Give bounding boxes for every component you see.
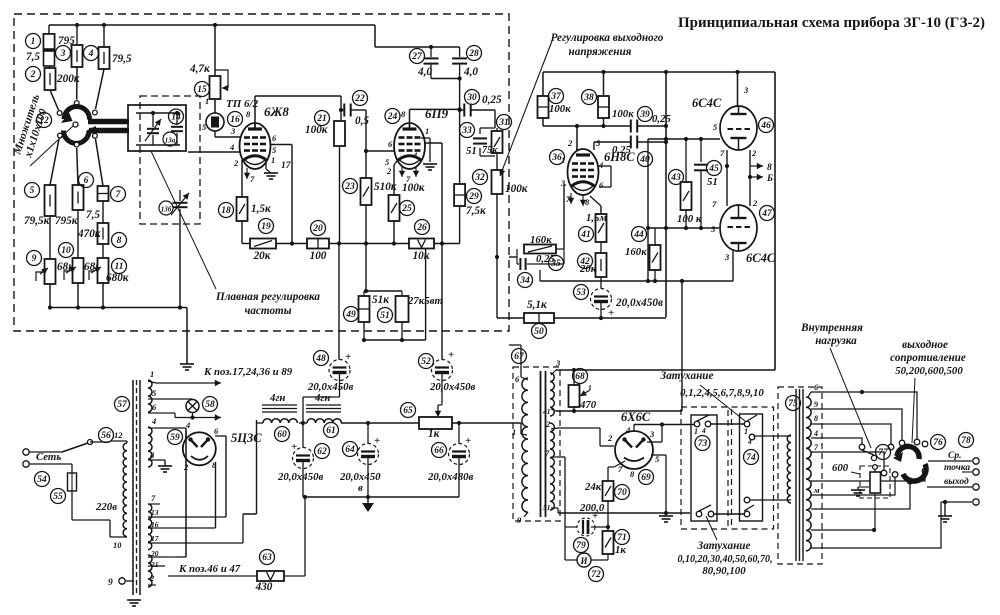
resistor R63 430 xyxy=(257,571,284,581)
switch 73 contacts xyxy=(694,421,700,427)
transformer T1 heater winding1 xyxy=(148,380,152,412)
svg-text:7,5к: 7,5к xyxy=(466,205,486,217)
wire xyxy=(496,156,498,170)
wire xyxy=(600,277,602,291)
svg-text:100: 100 xyxy=(310,250,327,262)
circled 11 xyxy=(112,259,127,274)
svg-text:100к: 100к xyxy=(305,124,328,136)
svg-text:0,25: 0,25 xyxy=(652,113,671,125)
wire xyxy=(241,221,243,244)
tube V7 6Х6С xyxy=(615,431,653,469)
circled 39 xyxy=(638,107,653,122)
wire anode xyxy=(409,109,411,129)
svg-text:80,90,100: 80,90,100 xyxy=(702,565,746,577)
wire rail xyxy=(434,243,460,245)
resistor R5 xyxy=(45,185,56,216)
pointer2 xyxy=(706,516,717,540)
circled 59 xyxy=(168,430,183,445)
wire xyxy=(341,422,419,424)
transformer T1 winding3 xyxy=(148,504,152,550)
svg-text:65: 65 xyxy=(403,406,413,416)
wire xyxy=(452,422,521,424)
svg-text:100 к: 100 к xyxy=(677,213,702,225)
circled 9 xyxy=(27,251,42,266)
capacitor C64 ecap xyxy=(367,423,369,444)
circled 58 xyxy=(203,397,218,412)
svg-text:8: 8 xyxy=(246,109,251,119)
svg-text:16: 16 xyxy=(230,115,240,125)
multiplier dashed box xyxy=(14,14,509,331)
filament links xyxy=(726,150,728,206)
svg-text:7: 7 xyxy=(814,443,819,452)
svg-text:Внутренняя: Внутренняя xyxy=(800,322,863,334)
arrow 8 xyxy=(750,165,763,167)
ground 6Ж8 xyxy=(265,160,267,169)
svg-text:4гн: 4гн xyxy=(314,392,330,404)
wire pin6 xyxy=(270,144,292,146)
resistor R37 100к xyxy=(542,72,544,96)
svg-text:70: 70 xyxy=(617,488,627,498)
svg-text:2: 2 xyxy=(233,158,239,168)
tap wire 6 xyxy=(811,474,925,481)
svg-text:3: 3 xyxy=(230,126,236,136)
wire cap52 drop xyxy=(441,244,443,361)
svg-text:17: 17 xyxy=(281,161,292,171)
wire x648 xyxy=(647,139,649,281)
svg-text:48: 48 xyxy=(315,354,326,364)
resistor R26 10к var xyxy=(409,239,434,249)
svg-text:470: 470 xyxy=(579,399,597,411)
svg-text:38: 38 xyxy=(583,93,594,103)
circled 2 xyxy=(26,67,41,82)
switch S12 rotor upper xyxy=(64,106,90,119)
wire rail xyxy=(242,243,250,245)
circled 1 xyxy=(26,34,41,49)
tap wire bottom1 xyxy=(811,529,874,531)
svg-text:19: 19 xyxy=(261,222,271,232)
wire tap2 to grid xyxy=(558,427,600,429)
circled 8 xyxy=(112,233,127,248)
circled 72 xyxy=(589,567,604,582)
svg-text:7: 7 xyxy=(545,448,550,458)
circled 27 xyxy=(410,49,425,64)
attenuator 73 inner box xyxy=(691,415,717,521)
svg-text:34: 34 xyxy=(519,276,530,286)
wire rail y47 xyxy=(375,46,460,48)
circled 67 xyxy=(512,349,527,364)
potentiometer R32 100к xyxy=(492,170,503,194)
svg-text:58: 58 xyxy=(205,400,215,410)
circled 43 xyxy=(669,170,684,185)
wire xyxy=(459,79,461,185)
circled 18 xyxy=(219,203,234,218)
svg-text:20к: 20к xyxy=(579,263,597,275)
circled 5 xyxy=(25,183,40,198)
wire tap6 xyxy=(811,392,917,439)
wire xyxy=(374,25,376,47)
circled 16 xyxy=(228,112,243,127)
wire cathode 6Ж8 xyxy=(241,160,243,197)
resistor R29 7,5к xyxy=(454,184,465,206)
grid feedback R35 160к xyxy=(509,256,517,258)
svg-text:1: 1 xyxy=(150,369,154,379)
circled 32 xyxy=(473,170,488,185)
svg-text:37: 37 xyxy=(550,92,562,102)
svg-text:2: 2 xyxy=(607,433,613,443)
svg-text:20,0х480в: 20,0х480в xyxy=(427,471,473,483)
ground output xyxy=(944,502,946,516)
circled 28 xyxy=(467,46,482,61)
svg-text:51: 51 xyxy=(380,311,390,321)
svg-text:23: 23 xyxy=(344,182,355,192)
resistor R18 1,5к xyxy=(237,197,248,221)
tap6 xyxy=(521,377,528,380)
wire xyxy=(96,69,105,109)
potentiometer R15 4,7к xyxy=(210,76,221,99)
svg-text:2: 2 xyxy=(567,138,573,148)
svg-text:+: + xyxy=(374,435,380,447)
circled 15 xyxy=(195,82,210,97)
circled 21 xyxy=(315,111,330,126)
wire y514 xyxy=(243,513,257,515)
svg-text:57: 57 xyxy=(117,400,128,410)
svg-text:7: 7 xyxy=(712,199,717,209)
svg-text:51: 51 xyxy=(466,145,477,157)
circled 51 xyxy=(378,308,393,323)
tap wire 3 xyxy=(811,424,891,444)
wire xyxy=(425,248,427,340)
cap shield solid box xyxy=(128,105,186,151)
wire anode47 xyxy=(732,251,734,281)
svg-text:6: 6 xyxy=(214,426,219,436)
wire xyxy=(215,435,226,437)
wire xyxy=(214,25,216,76)
transformer T1 winding4 xyxy=(148,555,152,587)
wire x775 xyxy=(774,72,776,370)
svg-text:2: 2 xyxy=(752,198,758,208)
svg-text:2: 2 xyxy=(30,70,36,80)
wire heat1 xyxy=(156,382,221,384)
wire cathode xyxy=(614,461,625,467)
circled 35 xyxy=(549,256,564,271)
transformer T3 dashed box xyxy=(778,387,822,564)
tap wire bottom2 xyxy=(811,502,941,548)
circled 60 xyxy=(275,427,290,442)
svg-text:3: 3 xyxy=(555,358,561,368)
tap 20 xyxy=(148,556,165,558)
tap wire 2 xyxy=(811,409,902,440)
circled 54 xyxy=(35,472,50,487)
svg-text:10к: 10к xyxy=(413,250,430,262)
circled 24 xyxy=(385,109,400,124)
svg-text:15: 15 xyxy=(197,85,207,95)
pointer3 xyxy=(830,348,871,448)
svg-text:9: 9 xyxy=(517,515,522,525)
svg-text:1: 1 xyxy=(512,427,516,437)
svg-text:6: 6 xyxy=(515,374,520,384)
svg-text:2: 2 xyxy=(149,573,155,583)
wire xyxy=(339,374,341,397)
svg-text:3: 3 xyxy=(724,252,730,262)
capacitor C52 ecap xyxy=(432,360,453,381)
tap2 xyxy=(551,428,558,429)
circled 3 xyxy=(56,46,71,61)
wire xyxy=(366,290,402,292)
svg-text:24: 24 xyxy=(387,112,398,122)
svg-text:К поз.17,24,36 и 89: К поз.17,24,36 и 89 xyxy=(203,366,293,378)
wire xyxy=(49,216,51,259)
circled 45 xyxy=(707,161,722,176)
svg-text:68: 68 xyxy=(575,372,585,382)
svg-text:5,1к: 5,1к xyxy=(527,299,547,311)
wire x666 xyxy=(665,72,667,317)
circled 68 xyxy=(573,369,588,384)
svg-text:0,5: 0,5 xyxy=(355,115,369,127)
wire anode 6Ж8 xyxy=(254,96,256,129)
circled 64 xyxy=(343,442,358,457)
wire xyxy=(607,501,609,531)
svg-text:8: 8 xyxy=(117,236,122,246)
circled 26 xyxy=(415,220,430,235)
tap wire 4 internal load xyxy=(811,438,862,444)
switch 74 bottom xyxy=(744,511,750,517)
wire xyxy=(165,556,175,558)
svg-text:39: 39 xyxy=(639,110,650,120)
svg-text:1,5к: 1,5к xyxy=(251,203,271,215)
svg-text:29: 29 xyxy=(468,192,479,202)
tap 8 xyxy=(148,459,165,461)
pointer4 xyxy=(912,378,915,443)
pointer xyxy=(700,385,745,421)
svg-text:10: 10 xyxy=(113,540,122,550)
mains terminals xyxy=(23,449,29,455)
svg-text:5: 5 xyxy=(152,388,157,398)
capacitor C66 ecap xyxy=(458,423,460,444)
resistor R7 xyxy=(98,186,109,201)
svg-text:31: 31 xyxy=(498,118,509,128)
wire y142 xyxy=(594,141,630,143)
wire grid47 xyxy=(648,227,719,229)
switch 77 lever xyxy=(862,450,874,455)
capacitor C45 51 xyxy=(700,139,702,162)
circled 47 xyxy=(760,206,775,221)
svg-text:71: 71 xyxy=(617,533,627,543)
circled 69 xyxy=(639,470,654,485)
resistor R19 20к var xyxy=(250,239,276,249)
tube V5 6С4С xyxy=(720,205,757,251)
svg-text:20,0х450в: 20,0х450в xyxy=(277,471,323,483)
wire y370 xyxy=(556,369,775,371)
fuse F55 xyxy=(55,463,72,465)
circled 46 xyxy=(759,118,774,133)
svg-text:470к: 470к xyxy=(77,228,101,240)
tap 21 xyxy=(148,565,165,567)
svg-text:3: 3 xyxy=(560,178,566,188)
svg-text:7: 7 xyxy=(116,190,122,200)
wire xyxy=(496,194,498,318)
label 13б xyxy=(159,201,173,215)
wire xyxy=(76,67,78,100)
circled 42 xyxy=(578,254,593,269)
svg-text:1к: 1к xyxy=(615,544,626,556)
svg-text:69: 69 xyxy=(641,473,651,483)
svg-text:20к: 20к xyxy=(253,250,271,262)
svg-text:9: 9 xyxy=(814,400,818,409)
svg-text:7,5: 7,5 xyxy=(26,51,40,63)
transformer T3 primary xyxy=(787,435,791,503)
capacitor C27 4,0 xyxy=(430,47,432,57)
svg-text:41: 41 xyxy=(580,230,591,240)
tap6 T3 xyxy=(808,392,811,397)
circled 55 xyxy=(51,489,66,504)
svg-text:Плавная регулировка: Плавная регулировка xyxy=(215,291,320,303)
svg-text:Затухание: Затухание xyxy=(697,540,751,552)
svg-text:6С4С: 6С4С xyxy=(692,96,722,110)
transformer T1 primary xyxy=(123,443,127,537)
wire xyxy=(431,78,460,80)
svg-text:25: 25 xyxy=(401,204,412,214)
svg-text:6: 6 xyxy=(152,402,157,412)
svg-text:Принципиальная схема прибора: Принципиальная схема прибора ЗГ-10 (ГЗ-2… xyxy=(678,15,985,31)
svg-text:+: + xyxy=(465,435,471,447)
svg-text:+: + xyxy=(608,307,614,319)
svg-text:2: 2 xyxy=(386,166,392,176)
svg-text:9: 9 xyxy=(108,578,113,588)
svg-text:9: 9 xyxy=(32,254,37,264)
svg-text:выходное: выходное xyxy=(902,339,948,351)
svg-text:1: 1 xyxy=(205,96,209,106)
terminal И xyxy=(577,553,591,567)
svg-text:1: 1 xyxy=(31,37,36,47)
resistor R50 5,1к xyxy=(524,313,554,323)
svg-text:51к: 51к xyxy=(372,294,389,306)
wire input top xyxy=(754,435,791,437)
svg-text:1,5м: 1,5м xyxy=(586,212,607,224)
wire xyxy=(257,422,264,424)
tube V1 6Ж8 xyxy=(240,123,271,169)
transformer T2 sec lower xyxy=(550,423,554,510)
svg-text:21: 21 xyxy=(316,114,327,124)
svg-text:Регулировка выходного: Регулировка выходного xyxy=(551,32,664,44)
potentiometer R11 xyxy=(98,258,109,283)
circled 31 xyxy=(497,115,512,130)
svg-text:100к: 100к xyxy=(549,103,571,115)
switch S12 rotor lower xyxy=(63,131,89,144)
svg-text:795к: 795к xyxy=(55,215,78,227)
svg-text:72: 72 xyxy=(591,570,601,580)
wire top rail xyxy=(49,24,375,26)
tap 4 xyxy=(148,427,160,429)
capacitor C48 ecap xyxy=(329,360,350,381)
transformer T2 core xyxy=(540,371,542,517)
svg-text:м: м xyxy=(813,486,820,495)
svg-text:сопротивление: сопротивление xyxy=(890,352,966,364)
wire xyxy=(713,513,744,515)
wire tap7 xyxy=(558,456,565,458)
circled 76 xyxy=(931,435,946,450)
switch 76 rotor xyxy=(897,446,919,459)
resistor R20 100 xyxy=(307,239,329,249)
resistor R4 xyxy=(103,25,105,47)
svg-text:79,5: 79,5 xyxy=(112,53,132,65)
wire xyxy=(299,422,307,424)
svg-text:680к: 680к xyxy=(106,272,129,284)
svg-text:К поз.46 и 47: К поз.46 и 47 xyxy=(178,563,241,575)
transformer T1 HV winding xyxy=(148,427,152,467)
svg-text:66: 66 xyxy=(434,446,444,456)
svg-text:8: 8 xyxy=(150,450,155,460)
circled 12 xyxy=(37,113,52,128)
wire y126 xyxy=(543,125,630,127)
tap 2 xyxy=(148,584,156,586)
wire bottom rail of bank xyxy=(51,307,187,309)
svg-text:59: 59 xyxy=(170,433,180,443)
svg-text:53: 53 xyxy=(576,288,586,298)
circled 56 xyxy=(99,428,114,443)
tap 13 xyxy=(148,516,165,518)
svg-text:7: 7 xyxy=(250,174,255,184)
resistor R41 1,5м xyxy=(596,214,607,242)
wire cathode xyxy=(394,161,397,165)
svg-text:51: 51 xyxy=(543,503,551,512)
capacitor C30 0,25 xyxy=(460,109,464,111)
svg-text:79,5к: 79,5к xyxy=(24,215,50,227)
ground tap8 xyxy=(164,460,166,466)
wire grid3 xyxy=(214,131,216,137)
wire xyxy=(393,221,395,244)
svg-text:3: 3 xyxy=(743,85,749,95)
wire xyxy=(165,542,243,544)
svg-text:64: 64 xyxy=(345,445,355,455)
circled 4 xyxy=(84,46,99,61)
wire xyxy=(136,144,180,146)
svg-text:14: 14 xyxy=(171,113,181,123)
capacitor C39 0,25 xyxy=(630,120,632,133)
tap 7 xyxy=(148,503,160,505)
circled 34 xyxy=(518,273,533,288)
switch S12 hub xyxy=(73,122,78,127)
potentiometer R9 xyxy=(45,259,56,284)
capacitor C14 xyxy=(176,113,178,125)
svg-text:21: 21 xyxy=(150,560,159,569)
circled 38 xyxy=(582,90,597,105)
svg-text:20: 20 xyxy=(150,549,159,558)
tap 17 xyxy=(148,542,165,544)
svg-text:точка: точка xyxy=(944,463,970,473)
wire pin4 hook xyxy=(597,165,611,167)
wire xyxy=(165,516,226,518)
circled 63 xyxy=(260,550,275,565)
svg-text:1: 1 xyxy=(271,155,275,165)
wire y513 xyxy=(558,512,690,514)
svg-text:4: 4 xyxy=(151,416,156,426)
svg-text:12: 12 xyxy=(114,430,123,440)
svg-text:73: 73 xyxy=(698,439,708,449)
circled 77 xyxy=(876,445,891,460)
svg-text:8: 8 xyxy=(767,163,772,173)
resistor R43 100к xyxy=(685,139,687,182)
wire xyxy=(50,90,59,110)
svg-text:41: 41 xyxy=(542,407,551,416)
tap wire 5 xyxy=(811,452,884,470)
thick bar to cap box xyxy=(88,119,129,125)
wire grid xyxy=(564,184,566,186)
wire xyxy=(459,206,461,244)
wire xyxy=(710,423,744,425)
transformer T2 primary xyxy=(522,378,528,512)
wire pin1 to ground xyxy=(421,137,430,139)
svg-text:67: 67 xyxy=(514,352,525,362)
